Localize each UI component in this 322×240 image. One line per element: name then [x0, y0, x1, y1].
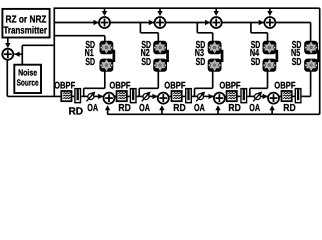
wire OBPF3 to RD3: [182, 95, 185, 97]
svg-text:SD: SD: [251, 57, 261, 68]
wire RD1 to OA1: [81, 95, 88, 97]
label RD3: [173, 103, 185, 114]
svg-text:RD: RD: [173, 103, 185, 114]
attenuator OA2: [142, 92, 151, 102]
wire SD1a to SD1b right-side link: [113, 50, 116, 62]
svg-text:RD: RD: [283, 103, 295, 114]
label OA1: [87, 103, 98, 114]
svg-text:SD: SD: [85, 57, 95, 68]
svg-text:RD: RD: [228, 103, 240, 114]
adder A3: [211, 17, 222, 28]
wire adder A4 output to SD N5: [275, 23, 310, 42]
label RD2: [118, 103, 130, 114]
wire bottom line up arrow into adder B2: [159, 105, 164, 114]
wire SD2b output jog to main line: [139, 71, 158, 97]
label RD1: [69, 107, 84, 118]
label SD (lower, section 4): [251, 57, 261, 68]
label N5: [291, 48, 300, 59]
label N4: [250, 48, 259, 59]
adder B3: [214, 93, 225, 104]
scrambler SD1a (upper): [100, 41, 114, 54]
wire top line tap down into adder A2: [157, 8, 162, 16]
wire RD2 to OA2: [137, 95, 143, 97]
wire into noise adder with arrow: [14, 52, 22, 57]
label N2: [141, 48, 150, 59]
label SD (lower, section 3): [196, 57, 206, 68]
svg-text:OBPF: OBPF: [219, 81, 240, 92]
svg-text:OA: OA: [249, 103, 260, 114]
wire adder A0 output down: [6, 60, 8, 96]
svg-text:OA: OA: [87, 103, 98, 114]
wire noise source riser: [21, 45, 23, 65]
scrambler SD3b (lower): [208, 59, 222, 72]
label SD (upper, section 4): [251, 40, 261, 51]
grating RD1: [74, 88, 81, 104]
wire top line tap down into adder A4: [267, 8, 272, 16]
adder A1: [99, 17, 110, 28]
wire bottom line up arrow into adder B4: [269, 105, 274, 114]
wire adder A0 output to OBPF1: [7, 95, 61, 97]
label OBPF2: [109, 81, 130, 92]
label OA4: [249, 103, 260, 114]
wire adder B2 to OBPF3: [169, 95, 172, 97]
wire adder A1 to adder A2 with arrow: [110, 20, 154, 25]
filter OBPF1: [61, 91, 71, 101]
adder A4: [264, 17, 275, 28]
wire SD2a to SD2b right-side link: [166, 50, 169, 62]
label RD4: [228, 103, 240, 114]
scrambler SD2b (lower): [153, 59, 167, 72]
grating RD4: [240, 88, 247, 104]
label SD (lower, section 1): [85, 57, 95, 68]
wire adder A2 to adder A3 with arrow: [165, 20, 210, 25]
svg-text:OBPF: OBPF: [109, 81, 130, 92]
label OA2: [139, 103, 150, 114]
scrambler SD2a (upper): [153, 41, 167, 54]
label OBPF4: [219, 81, 240, 92]
wire transmitter to adder A1 with arrow: [54, 20, 99, 25]
wire OBPF5 to RD5: [292, 95, 295, 97]
scrambler SD5a (upper): [304, 41, 318, 54]
wire SD4b output jog to main line: [250, 71, 268, 97]
label SD (upper, section 2): [141, 40, 151, 51]
svg-text:Transmitter: Transmitter: [3, 25, 47, 36]
grating RD5: [295, 88, 302, 104]
label OBPF5: [274, 81, 295, 92]
scrambler SD4a (upper): [263, 41, 277, 54]
attenuator OA1: [87, 92, 96, 102]
adder A2: [155, 17, 166, 28]
scrambler SD4b (lower): [263, 59, 277, 72]
wire left bracket vertical: [53, 8, 55, 96]
svg-text:OA: OA: [139, 103, 150, 114]
wire bottom line up arrow into adder B3: [215, 105, 220, 114]
filter OBPF5: [282, 91, 292, 101]
wire adder B4 to OBPF5: [279, 95, 282, 97]
label SD (lower, section 2): [141, 57, 151, 68]
wire SD3a to SD3b right-side link: [221, 50, 224, 62]
wire adder B1 to OBPF2: [114, 95, 116, 97]
wire branch y45 to noise adder: [22, 44, 54, 46]
wire SD5a to SD5b right-side link: [317, 50, 320, 62]
svg-text:SD: SD: [141, 57, 151, 68]
wire SD1b output jog to main line: [84, 71, 105, 97]
wire OBPF1 to RD1: [72, 95, 75, 97]
adder B2: [158, 93, 169, 104]
wire SD4a to SD4b right-side link: [276, 50, 279, 62]
wire OA3 to adder B3 with arrow: [204, 94, 214, 99]
wire bottom return line: [107, 113, 319, 115]
filter OBPF3: [172, 91, 182, 101]
wire top line tap down into adder A1: [102, 8, 107, 16]
svg-text:OBPF: OBPF: [274, 81, 295, 92]
filter OBPF2: [117, 91, 127, 101]
label SD (upper, section 3): [196, 40, 206, 51]
wire bottom line up arrow into adder B1: [105, 105, 110, 114]
wire transmitter down arrow into noise adder: [5, 38, 10, 49]
wire adder B3 to OBPF4: [225, 95, 227, 97]
wire top distribution line: [54, 7, 320, 9]
wire OA2 to adder B2 with arrow: [149, 94, 158, 99]
svg-text:Noise: Noise: [18, 68, 37, 78]
wire tap to SD N2: [140, 23, 158, 42]
wire RD3 to OA3: [192, 95, 198, 97]
attenuator OA4: [253, 92, 262, 102]
label N3: [195, 48, 204, 59]
adder A0 (Tx + noise): [2, 49, 13, 60]
svg-text:RD: RD: [69, 107, 84, 118]
scrambler SD3a (upper): [208, 41, 222, 54]
grating RD3: [185, 88, 192, 104]
wire OBPF2 to RD2: [127, 95, 130, 97]
wire OA4 to adder B4 with arrow: [261, 94, 268, 99]
transmitter box (RZ or NRZ Transmitter): [2, 9, 49, 38]
wire adder A3 to adder A4 with arrow: [222, 20, 264, 25]
label OA3: [194, 103, 205, 114]
svg-text:RD: RD: [118, 103, 130, 114]
svg-text:OBPF: OBPF: [54, 81, 75, 92]
grating RD2: [130, 88, 137, 104]
svg-text:Source: Source: [17, 78, 39, 88]
attenuator OA3: [196, 92, 205, 102]
scrambler SD1b (lower): [100, 59, 114, 72]
wire OA1 to adder B1 with arrow: [94, 94, 104, 99]
wire RD5 output to riser: [302, 95, 311, 97]
wire RD4 to OA4: [247, 95, 254, 97]
noise source box: [14, 65, 41, 93]
svg-text:SD: SD: [196, 57, 206, 68]
adder B1: [104, 93, 115, 104]
wire top line tap down into adder A3: [214, 8, 219, 16]
label SD (lower, section 5): [292, 57, 302, 68]
wire tap to SD N4: [251, 23, 268, 42]
wire right vertical return: [319, 8, 321, 114]
label SD (upper, section 5): [292, 40, 302, 51]
label N1: [85, 48, 94, 59]
svg-text:RZ or NRZ: RZ or NRZ: [6, 14, 47, 25]
label OBPF1: [54, 81, 75, 92]
label RD5: [283, 103, 295, 114]
label OBPF3: [164, 81, 185, 92]
svg-text:OBPF: OBPF: [164, 81, 185, 92]
svg-text:SD: SD: [292, 57, 302, 68]
filter OBPF4: [227, 91, 237, 101]
label SD (upper, section 1): [85, 40, 95, 51]
wire OBPF4 to RD4: [237, 95, 241, 97]
scrambler SD5b (lower): [304, 59, 318, 72]
wire SD3b output jog to main line: [195, 71, 213, 97]
wire tap to SD N3: [197, 23, 212, 42]
svg-text:OA: OA: [194, 103, 205, 114]
wire transmitter branch to SD1: [54, 36, 105, 42]
adder B4: [268, 93, 279, 104]
wire SD5b output down to RD5 output: [310, 71, 312, 97]
